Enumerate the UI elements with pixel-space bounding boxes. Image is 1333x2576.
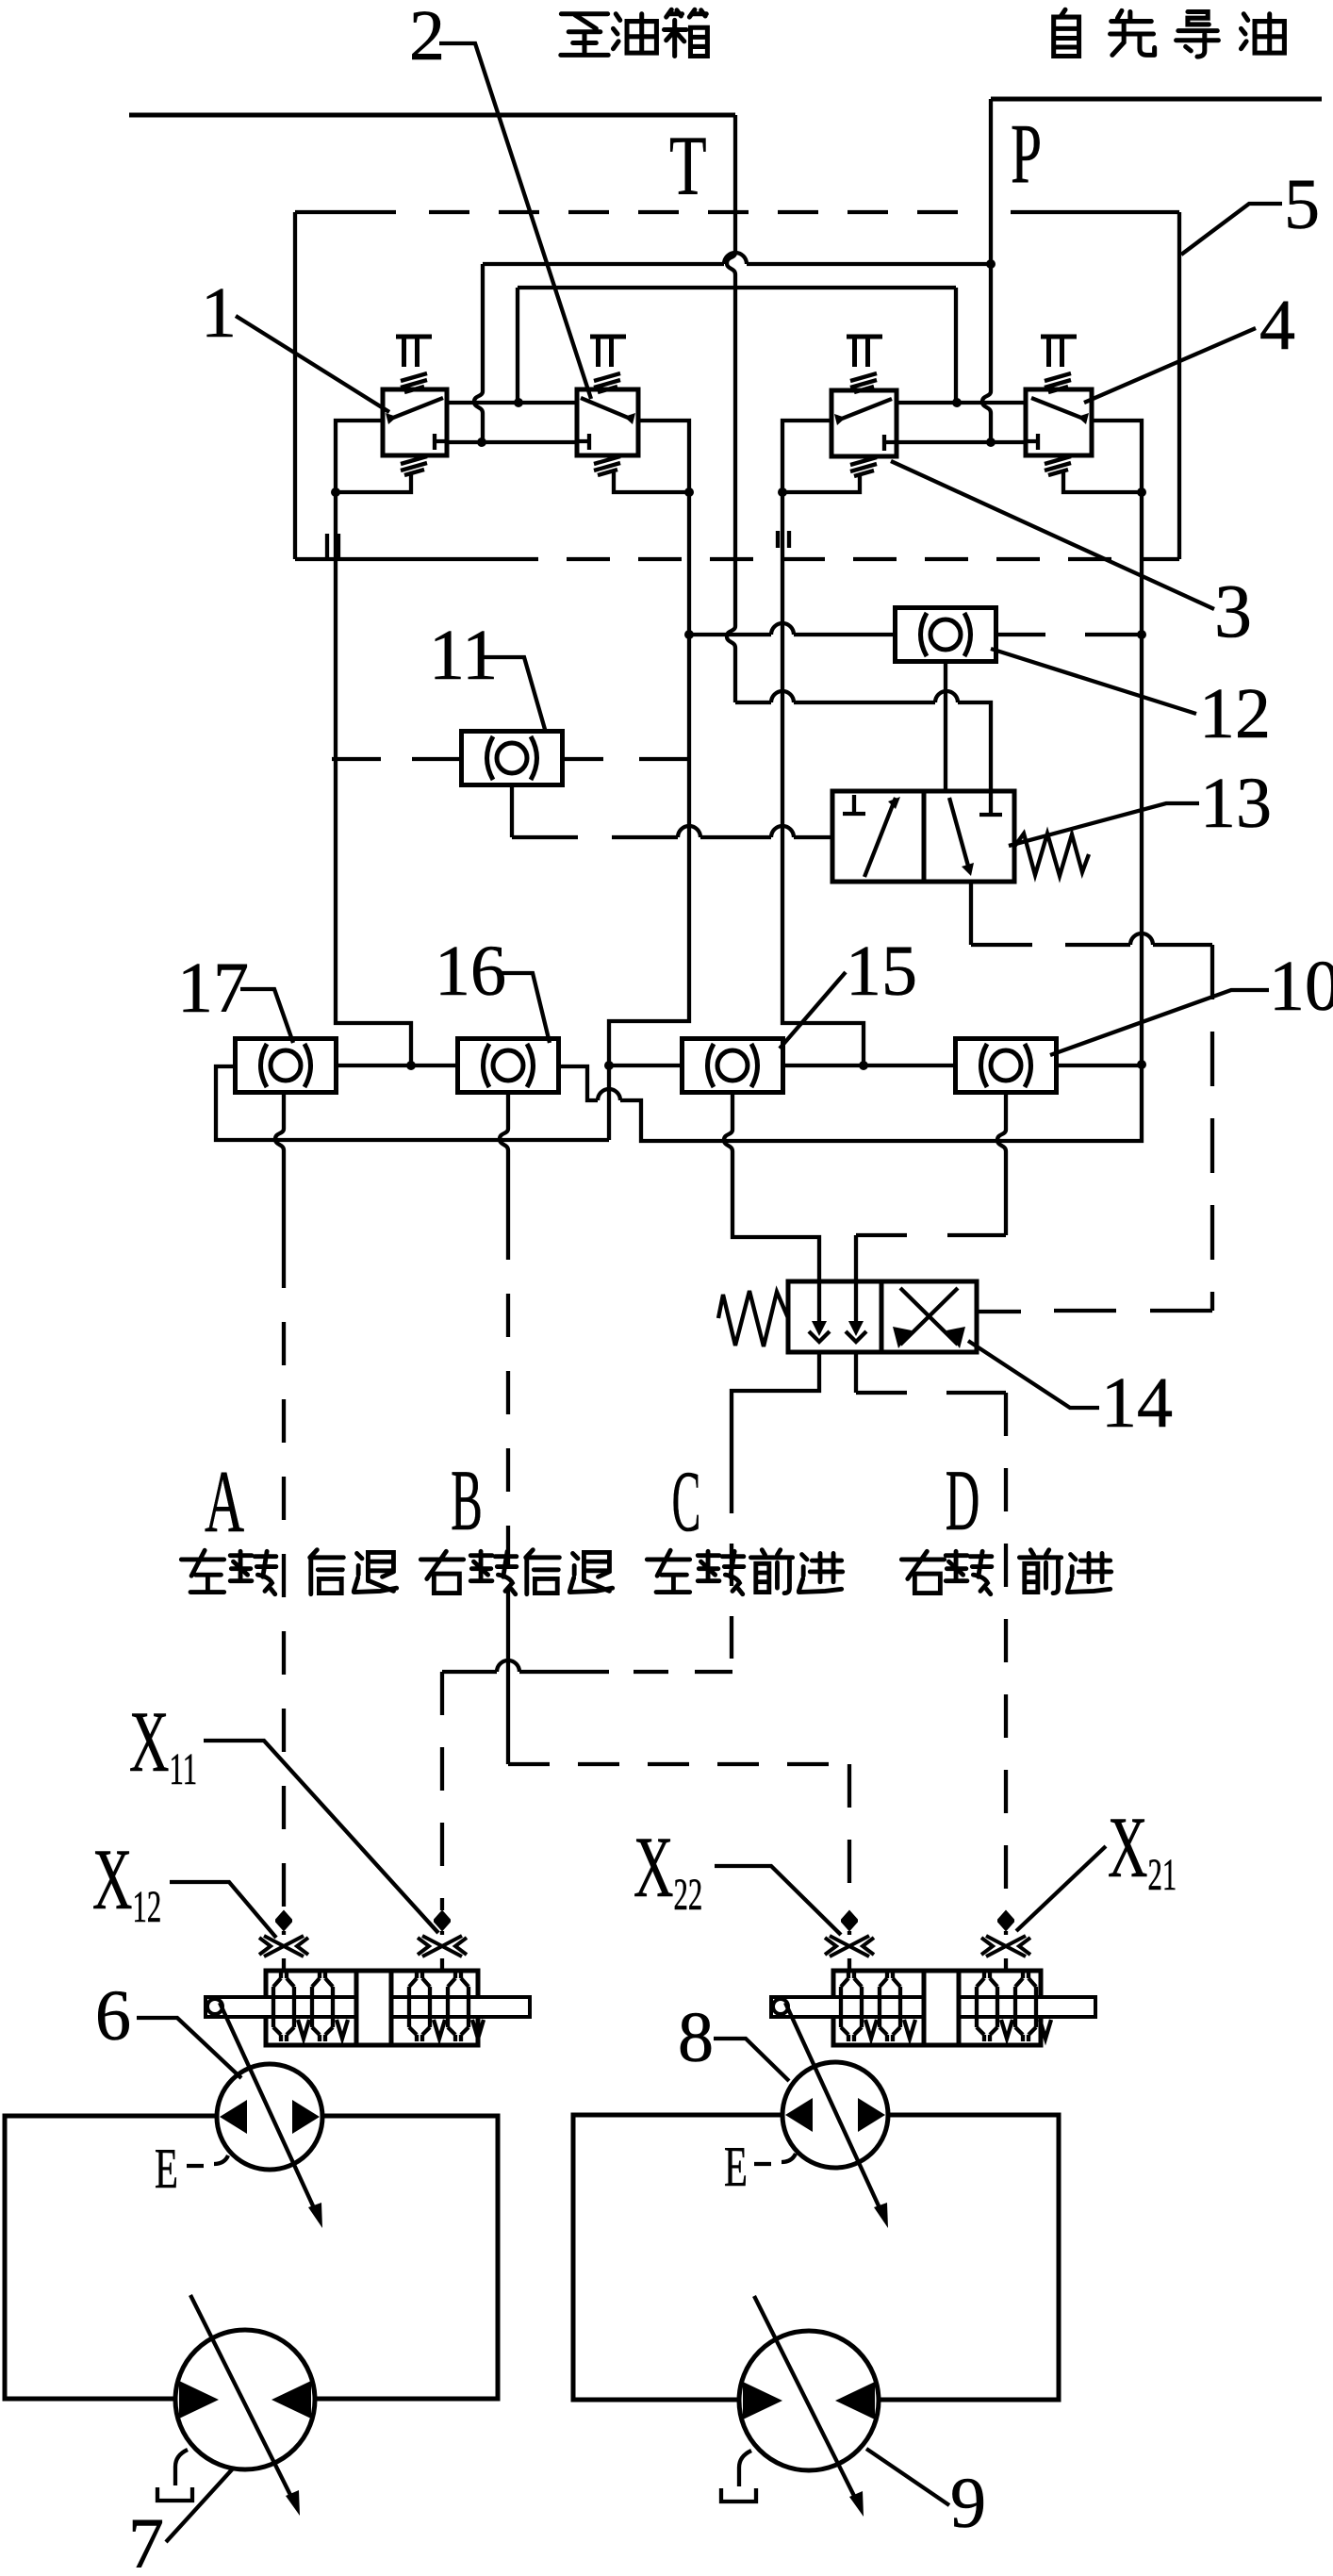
wire line B from cv16: [500, 1092, 508, 1216]
check valve 16: [458, 1039, 559, 1093]
node junction rail x1211 at cv12 dashed line: [1137, 630, 1146, 639]
node junction x1014 on upper interconnect: [952, 398, 962, 407]
pilot valve block right (item 8 group): [771, 1971, 1095, 2045]
leader line for 15: [780, 972, 846, 1049]
valve 4 proportional reducing valve (mirrored): [1026, 337, 1142, 492]
node valve4 rail junction: [1137, 487, 1146, 497]
label 后退 (A): [310, 1550, 397, 1594]
leader line for 4: [1084, 328, 1256, 403]
svg-text:X21: X21: [1108, 1799, 1177, 1900]
wire row line x646 to cv15: [609, 1064, 683, 1067]
motor 7 variable motor: [175, 2295, 315, 2516]
wire dashed vertical x1286: [1210, 945, 1214, 1311]
svg-text:14: 14: [1101, 1363, 1173, 1443]
svg-text:6: 6: [95, 1976, 131, 2056]
drain mark motor 9: [721, 2451, 756, 2502]
wire T elbow to valve 13: [735, 702, 991, 791]
svg-text:13: 13: [1200, 764, 1272, 843]
wire P vertical: [982, 99, 991, 442]
wire rail from valve3 down to row: [782, 492, 864, 1065]
valve 2 proportional reducing valve (mirrored): [577, 337, 689, 492]
wire pilot line y888 to valve 13: [512, 835, 832, 839]
label 至油箱 (to oil tank): [561, 9, 708, 56]
node valve1 rail junction: [331, 487, 340, 497]
box 5 bottom edge dashed: [295, 557, 495, 561]
leader line for X22: [715, 1866, 841, 1935]
pump 8 variable pump: [782, 2062, 888, 2168]
leader line for 3: [891, 461, 1214, 609]
valve 1 proportional reducing valve: [336, 337, 447, 492]
leader line for 2: [439, 43, 591, 399]
wire hop y888 over rail x830: [771, 826, 794, 837]
svg-text:4: 4: [1259, 286, 1295, 365]
leader line for 16: [497, 973, 550, 1043]
drain mark motor 7: [157, 2450, 192, 2501]
wire rail from valve2 down to check valve 15 line: [609, 492, 689, 1140]
wire hop y1002 over rail x1211: [1130, 933, 1153, 945]
wire line D below valve 14: [856, 1352, 1006, 1393]
node junction x436: [406, 1061, 416, 1070]
pump 6 variable pump: [217, 2064, 322, 2170]
node valve3 rail junction: [778, 487, 787, 497]
node junction x549 on upper interconnect: [514, 398, 523, 407]
check valve 11: [462, 732, 563, 785]
svg-text:X11: X11: [129, 1693, 197, 1794]
leader line for 8: [714, 2039, 789, 2081]
wire boundary ticks at rail x356: [327, 534, 338, 559]
wire line D from cv10 into valve 14: [997, 1092, 1006, 1235]
leader line for 12: [991, 649, 1196, 714]
svg-text:7: 7: [128, 2504, 164, 2576]
svg-text:8: 8: [678, 1998, 714, 2077]
tank circuit box left: [5, 2116, 498, 2399]
wire feed x512 down to drain line: [474, 264, 483, 442]
motor 9 variable motor: [739, 2296, 879, 2517]
leader line for 13: [1009, 803, 1199, 846]
wire dashed line y1390 to valve 14: [1021, 1309, 1212, 1313]
valve 14 two position valve: [718, 1281, 977, 1352]
wire valves 3-4 drain interconnect: [897, 440, 1026, 444]
node junction rail x731 at cv12 line: [684, 630, 694, 639]
node X12 port diamond: [276, 1911, 291, 1930]
wire T vertical with jogs: [727, 115, 735, 702]
wire cv12 bottom stem to valve 13: [944, 662, 947, 791]
wire X12 stem: [282, 1931, 286, 1971]
svg-text:D: D: [946, 1453, 980, 1549]
node X11 port symbol: [418, 1936, 467, 1957]
valve 3 proportional reducing valve: [782, 337, 897, 492]
label 左转 (A): [181, 1550, 276, 1593]
node junction x916: [859, 1061, 868, 1070]
wire hop over cv12 stem x1004: [935, 691, 958, 702]
wire row line cv17 to cv16: [337, 1064, 458, 1067]
svg-text:T: T: [669, 119, 707, 213]
wire dashed line y1002 to right: [971, 943, 1212, 947]
svg-text:A: A: [205, 1452, 244, 1551]
wire P top line: [991, 97, 1322, 102]
check valve 12: [896, 608, 996, 662]
leader line for X11: [204, 1741, 438, 1933]
svg-text:P: P: [1011, 107, 1042, 201]
leader line for 9: [866, 2449, 949, 2505]
check valve 15: [683, 1039, 783, 1093]
label 右转 (D): [901, 1551, 992, 1593]
box 5 dashed enclosure top edge: [295, 210, 396, 214]
wire E dashed stub: [187, 2155, 228, 2166]
label 前进 (D): [1019, 1550, 1111, 1593]
wire rail from valve1 down to check valve 16 line: [336, 492, 411, 1065]
wire feed y305 horizontal: [518, 286, 956, 289]
leader line for 11: [484, 657, 546, 733]
label 左转 (C): [647, 1550, 744, 1593]
wire X11 stem: [440, 1931, 444, 1971]
svg-text:X22: X22: [634, 1819, 702, 1920]
svg-text:2: 2: [409, 0, 445, 75]
leader line for X12: [170, 1882, 276, 1938]
svg-text:3: 3: [1214, 570, 1252, 653]
wire hop cv16 link over x646: [598, 1089, 620, 1100]
label 前进 (C): [750, 1550, 842, 1593]
wire hop y888 over rail x731: [678, 826, 700, 837]
wire hop over T line x780: [724, 253, 747, 264]
svg-text:E: E: [155, 2138, 178, 2201]
node X21 port symbol: [981, 1936, 1030, 1957]
node valve2 rail junction: [684, 487, 694, 497]
node X22 port symbol: [825, 1936, 874, 1957]
wire row line cv15 to cv10: [783, 1064, 956, 1067]
leader line for 7: [166, 2468, 234, 2542]
node junction rail x1211 at cv10: [1137, 1060, 1146, 1069]
label 后退 (B): [526, 1550, 613, 1594]
svg-text:5: 5: [1284, 165, 1320, 244]
label 右转 (B): [420, 1551, 517, 1593]
wire line A from cv17: [275, 1092, 284, 1245]
box 5 right edge: [1177, 212, 1181, 559]
node X11 port diamond: [435, 1911, 450, 1930]
svg-text:C: C: [672, 1453, 701, 1549]
wire hop C line over B line: [497, 1660, 519, 1672]
wire row line cv10 to rail: [1057, 1064, 1143, 1067]
tank circuit box right: [573, 2115, 1059, 2400]
wire rail from valve4 down right side: [559, 492, 1142, 1141]
node X12 port symbol: [259, 1936, 308, 1957]
pilot valve block left (item 6 group): [206, 1971, 530, 2045]
pump 8 lever strut: [785, 2003, 881, 2212]
wire hop over rail x830: [771, 691, 794, 702]
wire cv12 right dashed line: [996, 633, 1142, 636]
node X21 port diamond: [998, 1911, 1013, 1930]
wire line C below valve 14: [732, 1352, 819, 1471]
leader line for 10: [1050, 990, 1269, 1055]
wire line C turn to X11: [634, 1670, 732, 1674]
label 自先导油 (from pilot oil): [1054, 9, 1285, 57]
valve 13 two position valve: [832, 791, 1089, 882]
wire valve 13 bottom port: [969, 882, 973, 945]
wire hop cv12 line over rail x830: [771, 623, 794, 635]
leader line for X21: [1016, 1846, 1106, 1931]
wire valves 1-2 upper interconnect: [447, 401, 577, 405]
wire dashed pilot line right of cv11: [563, 757, 689, 761]
wire left bypass cv17: [216, 1066, 609, 1140]
svg-text:E: E: [724, 2136, 748, 2199]
node X22 port diamond: [842, 1911, 857, 1930]
svg-text:10: 10: [1269, 947, 1333, 1026]
check valve 17: [236, 1039, 337, 1093]
pump 6 lever strut: [220, 2003, 316, 2212]
wire X21 stem: [1004, 1931, 1008, 1971]
leader line for 6: [137, 2018, 241, 2078]
leader line for 14: [968, 1341, 1099, 1408]
svg-text:1: 1: [201, 273, 237, 353]
wire valves 1-2 drain interconnect: [447, 440, 577, 444]
wire feed x549 down to top line: [516, 288, 519, 403]
node junction rail x646 at row line: [604, 1061, 614, 1070]
wire boundary ticks at rail x830: [778, 531, 789, 548]
svg-text:9: 9: [950, 2464, 986, 2543]
check valve 10: [956, 1039, 1057, 1093]
leader line for 17: [240, 989, 293, 1043]
wire P branch horizontal y280: [483, 262, 991, 266]
leader line for 5: [1181, 204, 1282, 255]
wire cv11 bottom stub: [510, 785, 514, 837]
svg-text:B: B: [451, 1453, 483, 1549]
svg-text:12: 12: [1199, 674, 1271, 753]
svg-text:16: 16: [435, 932, 506, 1011]
leader line for 1: [236, 316, 389, 412]
wire feed x1014 down to top line: [954, 288, 958, 403]
wire dashed pilot line left of cv11: [332, 757, 461, 761]
wire line C from cv15 into valve 14: [724, 1092, 819, 1281]
svg-text:X12: X12: [92, 1831, 161, 1932]
node junction P branch: [986, 259, 996, 269]
wire E dashed stub right: [754, 2154, 796, 2164]
svg-text:17: 17: [177, 949, 249, 1028]
node junction P at drain interconnect: [986, 438, 996, 447]
wire valves 3-4 upper interconnect: [897, 401, 1026, 405]
wire T top line: [129, 113, 735, 118]
box 5 left edge: [293, 212, 297, 559]
svg-text:15: 15: [846, 932, 917, 1011]
wire X22 stem: [848, 1931, 851, 1971]
wire cv12 left line to T junction: [689, 633, 895, 636]
node junction x511 on drain interconnect: [477, 438, 486, 447]
